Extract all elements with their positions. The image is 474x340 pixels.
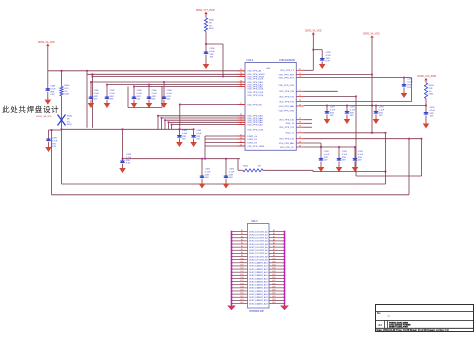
svg-text:B19: B19 <box>240 286 243 288</box>
svg-text:6.3V: 6.3V <box>50 94 55 96</box>
svg-text:A2: A2 <box>273 232 275 235</box>
svg-text:A18: A18 <box>272 282 275 285</box>
svg-text:C380: C380 <box>50 86 56 88</box>
svg-text:A21: A21 <box>272 292 275 295</box>
svg-text:B6: B6 <box>241 246 243 248</box>
svg-text:R344: R344 <box>429 85 435 87</box>
svg-text:0.1uF: 0.1uF <box>229 171 235 173</box>
svg-text:5%: 5% <box>209 25 212 27</box>
svg-text:A6: A6 <box>273 245 275 248</box>
svg-text:VDD_PPS_DQS: VDD_PPS_DQS <box>247 95 263 97</box>
svg-text:A24: A24 <box>272 301 275 304</box>
svg-text:VDD_PPS_CKE: VDD_PPS_CKE <box>278 85 294 87</box>
svg-text:11: 11 <box>240 123 242 125</box>
svg-text:C392: C392 <box>205 169 211 171</box>
svg-text:VDD_PPS_DQS: VDD_PPS_DQS <box>247 89 263 91</box>
svg-text:B13: B13 <box>240 268 243 270</box>
svg-text:42: 42 <box>240 141 242 143</box>
svg-text:9: 9 <box>299 90 300 92</box>
svg-text:R340: R340 <box>64 85 70 87</box>
svg-text:16V: 16V <box>205 177 209 179</box>
svg-text:0.1uF: 0.1uF <box>342 154 348 156</box>
svg-text:B15: B15 <box>240 274 243 276</box>
svg-text:A9: A9 <box>273 254 275 257</box>
svg-text:U36-2: U36-2 <box>247 59 254 62</box>
svg-text:DDR2_A21: DDR2_A21 <box>257 296 268 299</box>
svg-text:SHEET DDR2-PWR: SHEET DDR2-PWR <box>389 326 408 328</box>
svg-text:GND_T1: GND_T1 <box>286 133 295 135</box>
svg-text:R345: R345 <box>209 20 215 22</box>
svg-text:DDR2_D0: DDR2_D0 <box>249 231 259 233</box>
svg-text:B21: B21 <box>240 293 243 295</box>
svg-text:B24: B24 <box>240 302 243 304</box>
svg-text:22R: 22R <box>429 88 433 90</box>
svg-text:16V: 16V <box>182 139 186 141</box>
svg-text:VDD_PPS_EN: VDD_PPS_EN <box>247 104 262 106</box>
svg-text:Date: 2016-01-05 Time: 10:25: Date: 2016-01-05 Time: 10:25 Sheet: 14 o… <box>377 329 450 332</box>
svg-text:30: 30 <box>240 75 242 77</box>
svg-text:6.3V: 6.3V <box>326 61 331 63</box>
svg-text:0.1uF: 0.1uF <box>358 154 364 156</box>
svg-text:DDR2_A1: DDR2_A1 <box>259 233 269 236</box>
svg-text:DDR2_A11: DDR2_A11 <box>258 265 269 268</box>
svg-text:X5R: X5R <box>52 143 57 145</box>
svg-text:DDR2_A14: DDR2_A14 <box>257 274 268 277</box>
svg-text:VDD_PPS_T90: VDD_PPS_T90 <box>279 91 295 93</box>
svg-text:A11: A11 <box>272 260 275 263</box>
svg-text:0.1uF: 0.1uF <box>330 109 336 111</box>
svg-text:83: 83 <box>299 122 301 124</box>
svg-text:46: 46 <box>240 85 242 87</box>
svg-text:DDR2_A16: DDR2_A16 <box>257 280 268 283</box>
svg-text:X5R: X5R <box>182 136 187 138</box>
svg-text:X5R: X5R <box>379 112 384 114</box>
svg-text:BTB0805-30P: BTB0805-30P <box>250 311 265 313</box>
svg-text:20: 20 <box>240 69 242 71</box>
svg-text:4.7uF: 4.7uF <box>50 88 56 90</box>
svg-text:X5R: X5R <box>358 157 363 159</box>
svg-text:VDD_PPS_RTS: VDD_PPS_RTS <box>279 78 295 80</box>
svg-text:X5R: X5R <box>167 96 172 98</box>
svg-text:0.1uF: 0.1uF <box>110 93 116 95</box>
svg-text:C403: C403 <box>196 130 202 132</box>
svg-text:DDR2_A10: DDR2_A10 <box>257 262 268 265</box>
svg-text:R341: R341 <box>243 166 249 168</box>
svg-text:B5: B5 <box>241 243 243 245</box>
svg-text:A3: A3 <box>273 235 275 238</box>
svg-text:X5R: X5R <box>152 96 157 98</box>
svg-text:VDD_PPS_T92: VDD_PPS_T92 <box>279 102 295 104</box>
svg-text:DDR2_A8: DDR2_A8 <box>259 255 269 258</box>
svg-text:DDR2_VTT_PWR: DDR2_VTT_PWR <box>196 10 215 12</box>
svg-text:C397: C397 <box>379 107 385 109</box>
svg-text:0.1uF: 0.1uF <box>205 171 211 173</box>
svg-text:A1: A1 <box>273 229 275 232</box>
svg-text:C396: C396 <box>229 169 235 171</box>
svg-text:C394: C394 <box>210 48 216 50</box>
svg-text:B12: B12 <box>240 265 243 267</box>
svg-text:A17: A17 <box>272 279 275 282</box>
svg-text:A22: A22 <box>272 295 275 298</box>
svg-text:DDR2_D8: DDR2_D8 <box>249 256 259 258</box>
svg-text:16V: 16V <box>350 115 354 117</box>
svg-text:C384: C384 <box>137 90 143 92</box>
svg-text:4.7uF: 4.7uF <box>326 55 332 57</box>
svg-text:No: No <box>377 311 381 315</box>
svg-text:36: 36 <box>240 137 242 139</box>
svg-text:A5: A5 <box>273 242 275 245</box>
svg-text:C393: C393 <box>407 79 413 81</box>
svg-text:A13: A13 <box>272 267 275 270</box>
svg-text:A20: A20 <box>272 289 275 292</box>
svg-text:A15: A15 <box>272 273 275 276</box>
svg-text:DDR2_VA_VDD: DDR2_VA_VDD <box>36 115 52 118</box>
svg-text:38: 38 <box>299 145 301 147</box>
svg-text:C397: C397 <box>350 107 356 109</box>
svg-text:16V: 16V <box>196 139 200 141</box>
svg-text:VDD_PPS_TX: VDD_PPS_TX <box>280 70 294 72</box>
svg-text:R346: R346 <box>67 116 73 118</box>
svg-text:77: 77 <box>240 103 242 105</box>
svg-text:6.3V: 6.3V <box>126 163 131 165</box>
svg-text:61: 61 <box>299 69 301 71</box>
svg-text:0.1uF: 0.1uF <box>137 93 143 95</box>
svg-text:A23: A23 <box>272 298 275 301</box>
svg-text:16V: 16V <box>167 99 171 101</box>
svg-text:A4: A4 <box>378 323 382 327</box>
svg-text:DDR2_A6: DDR2_A6 <box>259 249 269 252</box>
svg-text:C392: C392 <box>326 52 332 54</box>
svg-text:DDR2_CLK_PWR: DDR2_CLK_PWR <box>418 76 437 78</box>
svg-text:C395: C395 <box>324 151 330 153</box>
svg-text:C381: C381 <box>94 90 100 92</box>
svg-text:0.1uF: 0.1uF <box>152 93 158 95</box>
svg-text:DDR2_D1: DDR2_D1 <box>249 234 259 236</box>
svg-text:16V: 16V <box>152 99 156 101</box>
svg-text:0.1uF: 0.1uF <box>350 109 356 111</box>
svg-text:DDR2_A0: DDR2_A0 <box>259 230 269 233</box>
svg-text:X5R: X5R <box>205 174 210 176</box>
svg-text:A14: A14 <box>272 270 275 273</box>
svg-text:B16: B16 <box>240 277 243 279</box>
svg-text:B22: B22 <box>240 296 243 298</box>
svg-text:0.1uF: 0.1uF <box>94 93 100 95</box>
svg-text:VDD_PPB_BA1: VDD_PPB_BA1 <box>279 142 295 145</box>
svg-text:U36-3: U36-3 <box>251 220 258 223</box>
svg-text:X5R: X5R <box>110 96 115 98</box>
svg-text:0.1uF: 0.1uF <box>196 133 202 135</box>
svg-text:A8: A8 <box>273 251 275 254</box>
svg-text:16V: 16V <box>110 99 114 101</box>
svg-text:28: 28 <box>299 141 301 143</box>
svg-text:DDR2_VA_VDD: DDR2_VA_VDD <box>38 41 55 44</box>
svg-text:DDR2_VA_VDD: DDR2_VA_VDD <box>305 29 322 32</box>
svg-text:A7: A7 <box>273 248 275 251</box>
svg-text:DDR2_A5: DDR2_A5 <box>259 246 269 249</box>
svg-text:C395: C395 <box>358 151 364 153</box>
svg-text:X5R: X5R <box>330 112 335 114</box>
svg-text:VDD_PPS_VREF: VDD_PPS_VREF <box>247 146 265 148</box>
svg-text:33: 33 <box>299 100 301 102</box>
svg-text:X5R: X5R <box>407 84 412 86</box>
svg-text:X5R: X5R <box>342 157 347 159</box>
svg-text:VDD_PPS_DA0: VDD_PPS_DA0 <box>247 81 263 84</box>
svg-text:6.3V: 6.3V <box>52 146 57 148</box>
svg-text:B18: B18 <box>240 283 243 285</box>
svg-text:VDD_PPS_DQS: VDD_PPS_DQS <box>247 92 263 94</box>
svg-text:DDR2_A18: DDR2_A18 <box>257 287 268 290</box>
svg-text:VDD_PPS_A0: VDD_PPS_A0 <box>247 70 262 73</box>
svg-text:VDD_PPS_DQS: VDD_PPS_DQS <box>247 129 263 131</box>
svg-text:B7: B7 <box>241 249 243 251</box>
svg-text:71: 71 <box>299 73 301 75</box>
svg-text:16V: 16V <box>137 99 141 101</box>
svg-text:VDD_PPS_T40: VDD_PPS_T40 <box>279 120 295 122</box>
svg-text:VDD_PPS_DQS: VDD_PPS_DQS <box>247 79 263 81</box>
svg-text:此处共焊盘设计: 此处共焊盘设计 <box>2 104 59 114</box>
svg-text:X5R: X5R <box>137 96 142 98</box>
svg-text:43: 43 <box>299 104 301 106</box>
svg-text:B17: B17 <box>240 280 243 282</box>
svg-text:AT91SAM9260: AT91SAM9260 <box>279 59 296 62</box>
svg-text:DDR2_A22: DDR2_A22 <box>257 299 268 302</box>
svg-text:75: 75 <box>299 118 301 120</box>
svg-text:X5R: X5R <box>229 174 234 176</box>
svg-text:X5R: X5R <box>50 91 55 93</box>
svg-text:GND_T0: GND_T0 <box>286 123 295 125</box>
svg-text:5%: 5% <box>67 121 70 123</box>
svg-text:DDR2_A2: DDR2_A2 <box>259 237 269 240</box>
svg-text:DDR2_A19: DDR2_A19 <box>257 290 268 293</box>
svg-text:DDR2_A23: DDR2_A23 <box>257 302 268 305</box>
svg-text:0.1uF: 0.1uF <box>182 133 188 135</box>
svg-text:DDR2_D1: DDR2_D1 <box>247 139 258 141</box>
svg-text:0.1uF: 0.1uF <box>379 109 385 111</box>
svg-text:B20: B20 <box>240 290 243 292</box>
svg-text:DDR2_D9: DDR2_D9 <box>249 259 259 261</box>
svg-text:B23: B23 <box>240 299 243 301</box>
svg-text:5: 5 <box>299 131 300 133</box>
svg-text:0.1uF: 0.1uF <box>407 81 413 83</box>
svg-text:VDD_PPS_DA7: VDD_PPS_DA7 <box>247 123 263 126</box>
svg-text:0.1uF: 0.1uF <box>167 93 173 95</box>
svg-text:C397: C397 <box>330 107 336 109</box>
svg-text:C409: C409 <box>182 130 188 132</box>
svg-text:VDD_PPS_BA0: VDD_PPS_BA0 <box>279 105 295 108</box>
svg-text:78: 78 <box>299 76 301 78</box>
svg-text:C381: C381 <box>52 138 58 140</box>
svg-text:C395: C395 <box>342 151 348 153</box>
svg-text:DDR2_D3: DDR2_D3 <box>249 241 259 243</box>
svg-text:B8: B8 <box>241 252 243 254</box>
svg-text:DDR2_A20: DDR2_A20 <box>257 293 268 296</box>
svg-text:VDD_PPS_T91: VDD_PPS_T91 <box>279 96 295 98</box>
svg-text:C384: C384 <box>167 90 173 92</box>
svg-text:16V: 16V <box>229 177 233 179</box>
svg-text:0.1uF: 0.1uF <box>210 51 216 53</box>
svg-text:B1: B1 <box>241 230 243 232</box>
svg-text:B11: B11 <box>240 261 243 263</box>
svg-text:A10: A10 <box>272 257 275 260</box>
svg-text:VDD_PPS_T42: VDD_PPS_T42 <box>279 139 295 141</box>
svg-text:DDR2_D4: DDR2_D4 <box>249 244 259 246</box>
svg-text:16V: 16V <box>379 115 383 117</box>
svg-text:4.7uF: 4.7uF <box>52 140 58 142</box>
svg-text:DDR2_D6: DDR2_D6 <box>249 250 259 252</box>
svg-text:21: 21 <box>299 95 301 97</box>
svg-text:1%: 1% <box>64 91 67 93</box>
svg-text:X5R: X5R <box>94 96 99 98</box>
svg-text:19: 19 <box>299 137 301 139</box>
svg-text:16V: 16V <box>407 87 411 89</box>
svg-text:VDD_PPS_CK: VDD_PPS_CK <box>280 147 295 149</box>
svg-text:C389: C389 <box>152 90 158 92</box>
svg-text:B10: B10 <box>240 258 243 260</box>
svg-text:C387: C387 <box>110 90 116 92</box>
svg-text:X5R: X5R <box>430 113 435 115</box>
svg-text:X5R: X5R <box>210 54 215 56</box>
svg-text:16V: 16V <box>358 160 362 162</box>
svg-text:DDR2_D7: DDR2_D7 <box>249 253 259 255</box>
svg-text:A12: A12 <box>272 264 275 267</box>
svg-text:B3: B3 <box>241 236 243 238</box>
svg-text:B14: B14 <box>240 271 243 273</box>
svg-text:X5R: X5R <box>350 112 355 114</box>
svg-text:C399: C399 <box>430 107 436 109</box>
svg-text:16V: 16V <box>94 99 98 101</box>
svg-text:16V: 16V <box>324 160 328 162</box>
svg-text:DDR2_A3: DDR2_A3 <box>259 240 269 243</box>
svg-text:DDR2_A4: DDR2_A4 <box>259 243 269 246</box>
svg-text:VDD_PPS_CKE: VDD_PPS_CKE <box>278 110 294 112</box>
svg-text:16V: 16V <box>430 116 434 118</box>
svg-text:DDR2_A9: DDR2_A9 <box>259 258 269 261</box>
svg-text:0.1uF: 0.1uF <box>324 154 330 156</box>
svg-text:VDD_PPS_RX0: VDD_PPS_RX0 <box>279 74 295 76</box>
svg-text:A4: A4 <box>273 238 275 241</box>
svg-text:DDR2_D2: DDR2_D2 <box>247 142 258 144</box>
svg-text:A19: A19 <box>272 285 275 288</box>
svg-text:31: 31 <box>240 134 242 136</box>
svg-text:DDR2_D2: DDR2_D2 <box>249 238 259 240</box>
svg-text:DDR2_A7: DDR2_A7 <box>259 252 269 255</box>
svg-text:A16: A16 <box>272 276 275 279</box>
svg-text:B9: B9 <box>241 255 243 257</box>
svg-text:B4: B4 <box>241 239 243 241</box>
svg-text:DDR2_D5: DDR2_D5 <box>249 247 259 249</box>
svg-text:VDD_PPS_T41: VDD_PPS_T41 <box>279 127 295 129</box>
svg-text:0.1uF: 0.1uF <box>430 110 436 112</box>
svg-text:DDR2_A12: DDR2_A12 <box>257 268 268 271</box>
svg-text:X5R: X5R <box>126 160 131 162</box>
svg-text:16V: 16V <box>342 160 346 162</box>
svg-text:DDR2_A15: DDR2_A15 <box>257 277 268 280</box>
svg-text:X5R: X5R <box>326 58 331 60</box>
svg-text:4.7uF: 4.7uF <box>126 157 132 159</box>
svg-text:48: 48 <box>240 144 242 146</box>
svg-text:DDR2_A13: DDR2_A13 <box>257 271 268 274</box>
svg-text:16V: 16V <box>330 115 334 117</box>
svg-text:16V: 16V <box>210 57 214 59</box>
svg-text:DDR2_D0: DDR2_D0 <box>247 136 258 138</box>
svg-text:C398: C398 <box>126 154 132 156</box>
svg-text:1%: 1% <box>429 91 432 93</box>
svg-text:X5R: X5R <box>324 157 329 159</box>
svg-text:X5R: X5R <box>196 136 201 138</box>
svg-text:DDR2_VA_VDD: DDR2_VA_VDD <box>363 33 380 36</box>
svg-text:DDR2_A17: DDR2_A17 <box>257 284 268 287</box>
svg-text:92: 92 <box>299 126 301 128</box>
svg-text:B2: B2 <box>241 233 243 235</box>
